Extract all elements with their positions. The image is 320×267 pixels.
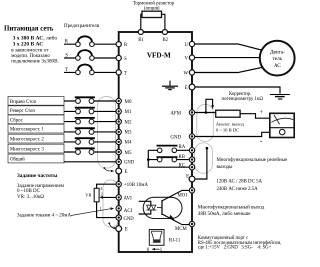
svg-text:AFM: AFM [170, 111, 181, 116]
shield drain arrow to E (analog) [108, 222, 116, 229]
terminal E right top [185, 84, 195, 91]
svg-text:E: E [125, 170, 128, 175]
label S (phase) [65, 53, 68, 58]
svg-text:Сброс: Сброс [10, 118, 23, 123]
terminal AVI [116, 195, 132, 202]
terminal M3 [116, 129, 132, 136]
svg-text:+: + [260, 109, 264, 116]
wire M1 [64, 110, 119, 112]
wire phase T [64, 71, 119, 73]
shield loop around analog input wires [103, 180, 119, 227]
svg-text:48В 50мА, либо меньше: 48В 50мА, либо меньше [198, 210, 251, 217]
svg-text:ACI: ACI [124, 209, 133, 214]
svg-text:M1: M1 [125, 110, 132, 115]
leader arrow to ACI [71, 207, 114, 215]
svg-text:V: V [185, 57, 189, 62]
external earth ground [270, 95, 290, 100]
analog meter [270, 113, 294, 137]
svg-text:E: E [186, 175, 189, 180]
relay outputs note [217, 158, 288, 192]
svg-text:выходы: выходы [217, 165, 234, 170]
wire common GND [64, 161, 119, 163]
svg-text:Многоскорост. 3: Многоскорост. 3 [10, 148, 44, 153]
terminal E relay [186, 175, 195, 182]
svg-text:Многоскорост. 1: Многоскорост. 1 [10, 128, 44, 133]
terminal V [185, 55, 195, 62]
label RA [179, 145, 186, 150]
terminal GND digital [116, 159, 135, 166]
potentiometer VR [94, 188, 99, 202]
multifunction output note [198, 204, 265, 218]
svg-text:M5: M5 [125, 151, 132, 156]
terminal RA [189, 148, 194, 153]
terminal GND analog [116, 215, 134, 222]
wire RB row [148, 159, 192, 161]
svg-text:MO1: MO1 [178, 194, 189, 199]
switch SW2 (reset) [75, 118, 95, 124]
wire GND to meter minus [192, 132, 270, 136]
terminal B1 [138, 30, 144, 44]
wire M3 [64, 131, 119, 133]
switch SW0 (forward/stop) [75, 97, 95, 103]
svg-text:RJ-11: RJ-11 [169, 239, 181, 244]
svg-text:VR: VR [85, 192, 91, 197]
terminal M0 [116, 98, 132, 105]
input command boxes [8, 96, 64, 163]
braking resistor note [133, 1, 175, 11]
pin 1 [100, 206, 102, 211]
wire B2 lead [162, 14, 165, 31]
wire B1 lead [141, 14, 142, 31]
fuse F1 (phase R) [76, 36, 95, 46]
relay common wire [148, 150, 192, 167]
svg-text:W: W [183, 71, 188, 76]
braking resistor RB1 [142, 11, 162, 17]
svg-text:0 ~ 10 В DC: 0 ~ 10 В DC [216, 128, 239, 133]
shield loop around digital input wires [98, 97, 116, 169]
svg-text:RB: RB [179, 155, 185, 160]
wire phase S [64, 57, 119, 59]
wiper of trim pot [205, 99, 214, 113]
svg-text:RC: RC [179, 163, 185, 168]
wire pot to meter plus [240, 114, 270, 119]
svg-text:GND: GND [124, 217, 135, 222]
label MCM [175, 227, 187, 232]
svg-text:потенциометру 1кΩ: потенциометру 1кΩ [222, 97, 264, 102]
VFD-M inverter enclosure U1 [119, 32, 192, 252]
terminal +10V [116, 182, 148, 189]
svg-text:Аналог. выход: Аналог. выход [216, 122, 245, 127]
svg-text:2: 2 [101, 192, 103, 197]
svg-text:VFD-M: VFD-M [147, 51, 171, 59]
terminal GND right [170, 134, 194, 141]
junction relay common [147, 158, 150, 161]
switch SW5 (multispeed 3) [75, 148, 95, 154]
terminal M5 [116, 149, 132, 156]
pin 3 [100, 186, 102, 191]
shield loop around relay output wires [195, 143, 213, 174]
svg-text:где 1:+15V 2:GND 3:SG-: где 1:+15V 2:GND 3:SG- 4: SG+ [198, 246, 272, 251]
shield loop around AFM analog output wires [197, 104, 214, 141]
svg-text:Многофункциональный выход: Многофункциональный выход [198, 204, 265, 211]
optocoupler input wires [139, 201, 151, 214]
wire M4 [64, 141, 119, 143]
svg-text:240В АС ниже 2.5А: 240В АС ниже 2.5А [217, 187, 259, 192]
pin 2 [101, 192, 103, 197]
terminal R [116, 42, 128, 48]
wire AFM to trim pot [192, 112, 216, 114]
current setting note [17, 213, 71, 218]
label VR [85, 192, 91, 197]
wire V to motor [192, 57, 261, 59]
svg-text:АС: АС [274, 63, 281, 69]
relay contact RA (NO) [157, 146, 178, 153]
RJ-11 pin order 6 to 1 [147, 248, 163, 253]
svg-text:B1: B1 [138, 38, 144, 43]
VFD-M label [147, 51, 171, 59]
terminal E left [116, 168, 128, 175]
fuse F2 (phase S) [76, 50, 95, 60]
svg-text:GND: GND [170, 135, 181, 140]
svg-text:Многоскорост. 2: Многоскорост. 2 [10, 138, 44, 143]
svg-text:M3: M3 [125, 131, 132, 136]
label R (phase) [65, 40, 69, 45]
wire VR pin3 to +10V [97, 184, 119, 188]
terminal ACI [116, 206, 133, 214]
wire M0 [64, 100, 119, 102]
terminal S [116, 55, 127, 62]
svg-text:Многофункциональные релейные: Многофункциональные релейные [217, 158, 288, 163]
svg-text:0 ~10В DC: 0 ~10В DC [17, 189, 41, 194]
trim potentiometer 1k [216, 110, 240, 117]
analog output note [216, 122, 245, 133]
svg-text:Питающая сеть: Питающая сеть [4, 26, 54, 33]
svg-text:E: E [125, 228, 128, 233]
terminal AFM [170, 110, 194, 117]
power supply note [4, 26, 59, 65]
terminal RB [189, 157, 194, 162]
svg-text:M0: M0 [125, 100, 132, 105]
terminal M4 [116, 139, 132, 146]
svg-text:тель: тель [273, 56, 283, 62]
svg-text:T: T [124, 71, 127, 76]
label RC [179, 163, 185, 168]
wire E to external earth [192, 87, 280, 94]
svg-text:Корректир.: Корректир. [229, 92, 251, 97]
svg-text:Реверс Стоп: Реверс Стоп [10, 109, 35, 114]
svg-text:VR: 3...10кΩ: VR: 3...10кΩ [17, 195, 44, 200]
switch SW3 (multispeed 1) [75, 128, 95, 134]
terminal E analog [116, 226, 128, 233]
shield drain wire to E (relay) [196, 147, 209, 179]
svg-text:Двига-: Двига- [270, 50, 285, 56]
terminal T [116, 70, 127, 77]
wire M5 [64, 151, 119, 153]
terminal B2 [162, 30, 168, 44]
svg-text:S: S [65, 53, 68, 58]
terminal W [183, 70, 194, 77]
wire W to motor [192, 67, 263, 72]
terminal MCM [189, 221, 194, 226]
switch SW1 (reverse/stop) [75, 108, 95, 114]
plus label [260, 109, 264, 116]
minus label [260, 137, 263, 145]
terminal M1 [116, 109, 132, 115]
optocoupler PC1 body [143, 197, 182, 218]
fuses note [64, 24, 100, 29]
svg-text:Задание токами 4 ~ 20мА: Задание токами 4 ~ 20мА [17, 213, 71, 218]
svg-text:S: S [124, 57, 127, 62]
wire VR wiper to AVI [99, 196, 118, 199]
trim potentiometer note [222, 92, 264, 102]
frequency setting note [17, 173, 65, 200]
relay contact RB (NC) [157, 157, 178, 162]
label MO1 [178, 194, 189, 199]
svg-text:120В АС / 28В DC 5А: 120В АС / 28В DC 5А [217, 179, 263, 184]
wire M2 [64, 121, 119, 123]
label RB [179, 155, 185, 160]
optocoupler LED pair [146, 205, 156, 210]
svg-text:U: U [185, 43, 189, 48]
svg-text:подключение 3х380В.: подключение 3х380В. [11, 59, 59, 65]
wire VR pin1 to GND [97, 202, 119, 218]
switch SW4 (multispeed 2) [75, 138, 95, 144]
wire phase R [64, 43, 119, 45]
motor M (AC) [260, 41, 295, 76]
svg-text:Вправо Стоп: Вправо Стоп [10, 100, 37, 105]
svg-text:3 х 380 В АС, либо: 3 х 380 В АС, либо [13, 34, 58, 41]
wire RA row [148, 149, 192, 151]
svg-text:1: 1 [100, 206, 102, 211]
terminal M2 [116, 119, 132, 126]
svg-text:Общий: Общий [10, 158, 25, 163]
svg-text:M4: M4 [125, 141, 132, 146]
svg-text:3: 3 [100, 186, 102, 191]
label T (phase) [65, 68, 68, 73]
terminal MO1 [189, 188, 194, 193]
terminal U [185, 41, 195, 48]
svg-text:B2: B2 [162, 38, 168, 43]
internal earth ground [162, 81, 178, 90]
svg-text:AVI: AVI [124, 196, 133, 201]
terminal RC [189, 165, 194, 170]
svg-text:MCM: MCM [175, 227, 187, 232]
svg-text:RA: RA [179, 145, 186, 150]
svg-text:M2: M2 [125, 120, 132, 125]
svg-text:GND: GND [124, 161, 135, 166]
svg-text:Задание частоты: Задание частоты [17, 173, 57, 179]
RS-485 port note [198, 236, 282, 251]
shield drain arrow to E (digital) [103, 167, 114, 172]
optocoupler phototransistor [157, 190, 192, 224]
svg-text:T: T [65, 68, 68, 73]
fuse F3 (phase T) [76, 65, 95, 75]
svg-text:Предохранители: Предохранители [64, 24, 100, 29]
RJ-11 connector [149, 230, 164, 246]
svg-text:E: E [185, 86, 188, 91]
svg-text:+10В 10мА: +10В 10мА [124, 183, 149, 188]
label RJ-11 [169, 239, 181, 244]
wire U to motor [192, 44, 263, 50]
